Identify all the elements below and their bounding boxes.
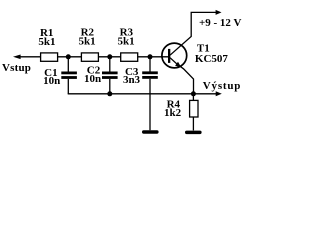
wire R4 to ground — [192, 117, 194, 130]
capacitor C1 — [61, 57, 77, 94]
svg-text:5k1: 5k1 — [79, 36, 96, 48]
svg-text:10n: 10n — [43, 75, 60, 87]
wire R2 to R3 — [98, 56, 120, 58]
node E junction dot emitter/R4/output — [191, 91, 196, 96]
svg-text:1k2: 1k2 — [164, 107, 182, 119]
svg-text:5k1: 5k1 — [38, 36, 55, 48]
transistor T1 — [162, 12, 217, 93]
wire feedback rail / output line — [68, 93, 217, 95]
svg-text:5k1: 5k1 — [118, 36, 135, 48]
resistor R3 — [121, 53, 138, 61]
svg-text:KC507: KC507 — [195, 53, 229, 65]
ground (below C3) — [142, 130, 159, 134]
node A junction dot R1/C1 — [66, 54, 71, 59]
node Vstup input arrow — [13, 55, 21, 60]
ground (below R4) — [185, 131, 202, 135]
svg-text:Vstup: Vstup — [2, 62, 31, 74]
node Vystup output arrow — [216, 91, 222, 96]
resistor R4 — [190, 100, 198, 117]
svg-text:10n: 10n — [84, 73, 101, 85]
svg-text:3n3: 3n3 — [123, 74, 141, 86]
resistor R2 — [81, 53, 98, 61]
wire R3 to transistor base — [138, 56, 169, 58]
resistor R1 — [41, 53, 58, 61]
wire R1 to R2 — [58, 56, 82, 58]
node B junction dot R2/C2 — [107, 54, 112, 59]
node C junction dot R3/C3 base — [148, 54, 153, 59]
wire C3 bottom to ground — [149, 79, 151, 130]
wire emitter node to R4 — [192, 94, 194, 101]
svg-text:Výstup: Výstup — [203, 80, 241, 92]
capacitor C2 — [102, 57, 118, 94]
wire input to R1 — [20, 56, 41, 58]
capacitor C3 — [142, 57, 158, 79]
node +9-12V supply arrow — [216, 10, 222, 15]
svg-text:+9 - 12 V: +9 - 12 V — [199, 17, 241, 29]
node D junction dot C2/rail — [107, 91, 112, 96]
